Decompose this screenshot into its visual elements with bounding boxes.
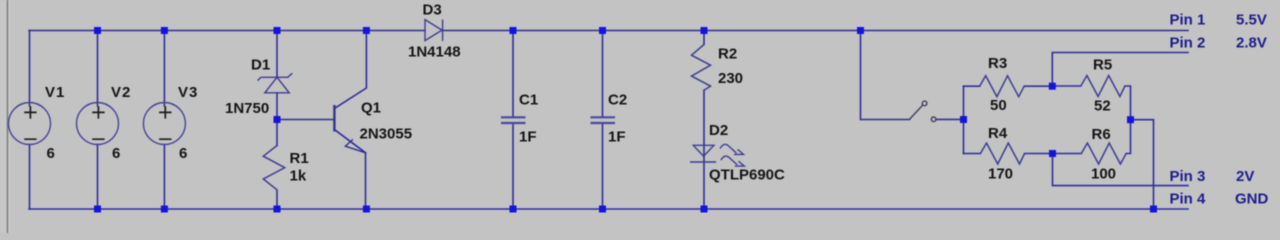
svg-text:R4: R4 (988, 125, 1008, 142)
svg-text:D3: D3 (423, 2, 442, 19)
svg-text:6: 6 (179, 145, 187, 162)
svg-text:1N4148: 1N4148 (408, 44, 461, 61)
svg-text:D1: D1 (251, 56, 270, 73)
svg-text:6: 6 (47, 145, 55, 162)
svg-text:2N3055: 2N3055 (360, 125, 413, 142)
svg-text:52: 52 (1094, 98, 1111, 115)
svg-text:2.8V: 2.8V (1236, 35, 1267, 52)
svg-text:6: 6 (112, 145, 120, 162)
svg-text:1F: 1F (519, 129, 537, 146)
svg-text:100: 100 (1091, 166, 1116, 183)
svg-text:50: 50 (990, 97, 1007, 114)
svg-text:C2: C2 (608, 92, 627, 109)
svg-text:C1: C1 (519, 92, 538, 109)
svg-text:GND: GND (1235, 190, 1269, 207)
svg-text:R6: R6 (1092, 126, 1111, 143)
svg-text:V1: V1 (45, 84, 65, 101)
svg-text:Pin 2: Pin 2 (1170, 35, 1206, 52)
svg-text:D2: D2 (709, 122, 728, 139)
svg-text:R2: R2 (718, 46, 737, 63)
svg-text:1k: 1k (290, 167, 307, 184)
svg-text:V3: V3 (178, 84, 198, 101)
svg-text:5.5V: 5.5V (1236, 11, 1267, 28)
svg-text:Pin 4: Pin 4 (1170, 190, 1207, 207)
svg-text:Q1: Q1 (361, 100, 381, 117)
svg-text:Pin 1: Pin 1 (1170, 11, 1206, 28)
svg-text:1F: 1F (608, 129, 626, 146)
svg-text:Pin 3: Pin 3 (1170, 168, 1206, 185)
svg-text:2V: 2V (1236, 168, 1254, 185)
svg-text:170: 170 (988, 166, 1013, 183)
svg-text:QTLP690C: QTLP690C (709, 167, 785, 184)
svg-text:R1: R1 (290, 150, 309, 167)
svg-text:R3: R3 (988, 55, 1007, 72)
svg-text:230: 230 (718, 70, 743, 87)
svg-text:V2: V2 (111, 84, 131, 101)
svg-text:1N750: 1N750 (225, 100, 269, 117)
svg-text:R5: R5 (1093, 56, 1112, 73)
